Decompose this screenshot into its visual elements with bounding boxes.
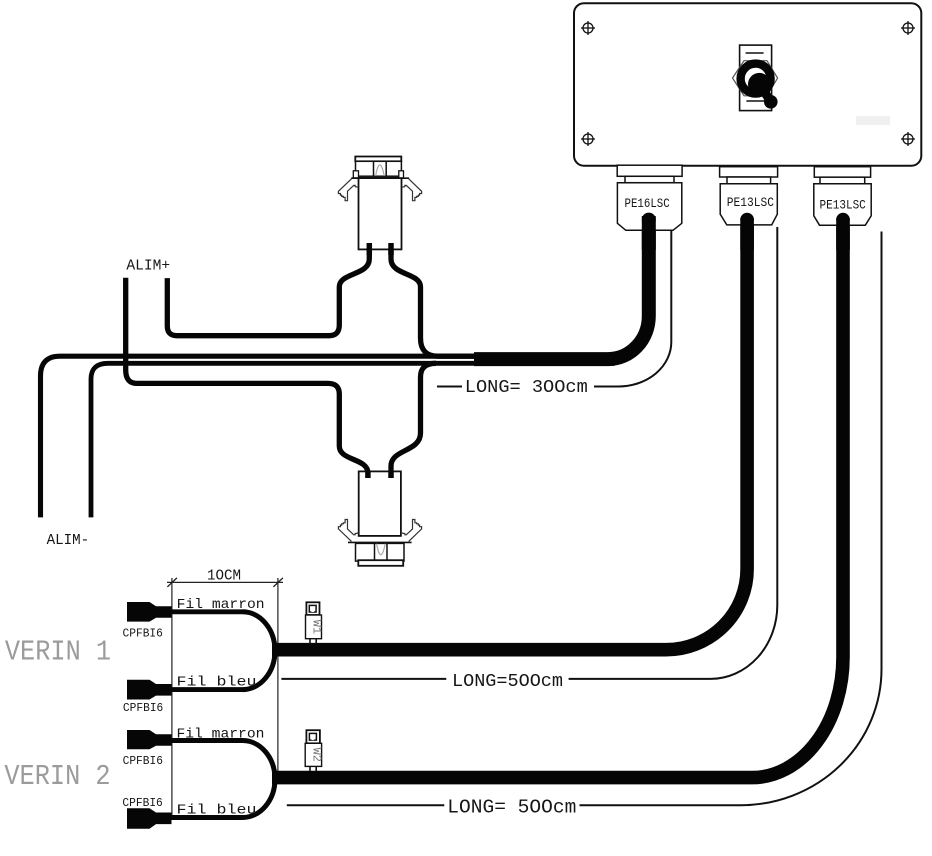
wire thin PE13LSC#2 second conductor (LONG= 500cm leader) (580, 232, 882, 806)
screw bottom-right (901, 132, 915, 146)
svg-text:LONG= 3OOcm: LONG= 3OOcm (465, 377, 588, 398)
wire segment left of LONG=500cm (281, 678, 446, 680)
tag W1 (306, 602, 324, 643)
wire bottom connector right pin joining lower band (391, 363, 436, 478)
wire ALIM- second lead to PE16LSC cable (lower band) (91, 363, 615, 517)
smudge artifact inside box (856, 116, 890, 125)
cable PE13LSC#2 thick to VERIN 2 (272, 218, 843, 778)
svg-text:VERIN 1: VERIN 1 (5, 636, 111, 669)
dimension line 10CM (167, 578, 283, 587)
terminal CPFBI6 #1 (VERIN1 marron) (127, 602, 172, 622)
cable PE16LSC stub below gland (642, 216, 656, 250)
wire ALIM- first lead to PE16LSC cable (upper band) (41, 356, 616, 517)
toggle switch S1 plate (740, 45, 772, 111)
connector X2 right wing (402, 520, 422, 542)
toggle switch slot top (746, 52, 764, 54)
toggle switch lever (761, 87, 771, 102)
wire top connector right pin joining upper band (391, 242, 474, 356)
connector X1 (top) body (351, 157, 409, 250)
svg-text:LONG= 5OOcm: LONG= 5OOcm (447, 797, 576, 819)
wire dash left of LONG= 300cm (437, 386, 462, 388)
connector X1 left wing (338, 179, 358, 201)
wire VERIN1 U-turn arc (243, 612, 275, 690)
svg-text:Fil marron: Fil marron (177, 727, 265, 743)
cable PE16LSC dome top (642, 213, 656, 227)
terminal CPFBI6 #3 (VERIN2 marron) (127, 730, 172, 749)
svg-text:CPFBI6: CPFBI6 (123, 754, 163, 768)
cable PE16LSC thick (to control box) (474, 216, 649, 359)
toggle switch lever base (748, 73, 771, 96)
toggle switch hex nut (733, 61, 778, 96)
connector X1 pin stubs (367, 243, 373, 255)
wire VERIN2 Fil marron (150, 738, 243, 743)
cable PE13LSC#2 dome top (836, 213, 850, 227)
toggle switch lever ball (764, 95, 778, 109)
svg-text:LONG=5OOcm: LONG=5OOcm (452, 671, 563, 692)
cable PE13LSC#1 stub below gland (740, 218, 754, 250)
toggle switch bushing ring (741, 64, 771, 94)
svg-text:Fil bleu: Fil bleu (177, 802, 257, 818)
svg-text:PE16LSC: PE16LSC (625, 196, 670, 211)
dimension extension line left (x=172) (171, 578, 173, 820)
dimension extension line right (x=278) (277, 578, 279, 772)
wire VERIN2 U-turn arc (243, 741, 276, 818)
connector X2 (bottom) body (348, 471, 412, 565)
svg-text:CPFBI6: CPFBI6 (123, 627, 163, 641)
svg-text:1OCM: 1OCM (207, 568, 241, 585)
toggle switch slot bottom (746, 100, 765, 102)
svg-text:CPFBI6: CPFBI6 (122, 796, 162, 810)
terminal CPFBI6 #2 (VERIN1 bleu) (127, 680, 172, 700)
cable PE13LSC#1 dome top (740, 213, 754, 227)
svg-text:Fil bleu: Fil bleu (177, 675, 257, 691)
svg-text:PE13LSC: PE13LSC (820, 197, 866, 212)
gland PE13LSC#1 body (720, 167, 778, 225)
connector X2 pin stubs (365, 471, 371, 478)
connector X1 right wing (402, 179, 422, 201)
svg-text:ALIM+: ALIM+ (126, 257, 170, 274)
screw bottom-left (581, 132, 595, 146)
wire ALIM+ right stub to top connector left pin (167, 242, 369, 336)
cable PE13LSC#1 thick to VERIN 1 (272, 218, 747, 650)
tag W2 (305, 730, 323, 771)
cable PE13LSC#2 stub below gland (836, 218, 850, 250)
wire segment left of LONG= 500cm (287, 804, 445, 806)
screw top-right (901, 21, 915, 35)
svg-text:W1: W1 (310, 620, 324, 634)
wire thin PE13LSC#1 second conductor (LONG=500cm leader) (569, 227, 778, 679)
svg-text:CPFBI6: CPFBI6 (123, 701, 163, 715)
svg-text:PE13LSC: PE13LSC (727, 195, 774, 210)
connector X2 left wing (338, 520, 358, 542)
terminal CPFBI6 #4 (VERIN2 bleu) (127, 808, 172, 828)
wire thin PE16LSC second conductor (LONG= 300cm leader) (594, 230, 671, 387)
screw top-left (581, 21, 595, 35)
wire ALIM+ left stub to bottom connector left pin (126, 278, 368, 478)
wire VERIN1 Fil marron (150, 609, 243, 614)
gland PE13LSC#2 body (814, 167, 871, 226)
svg-text:ALIM-: ALIM- (47, 532, 90, 549)
svg-text:VERIN 2: VERIN 2 (4, 760, 110, 793)
wire VERIN1 Fil bleu (150, 687, 243, 692)
svg-text:Fil marron: Fil marron (177, 597, 265, 613)
control box enclosure (574, 3, 921, 166)
gland PE16LSC body (617, 165, 682, 230)
svg-text:W2: W2 (309, 748, 323, 762)
wire VERIN2 Fil bleu (150, 815, 243, 820)
